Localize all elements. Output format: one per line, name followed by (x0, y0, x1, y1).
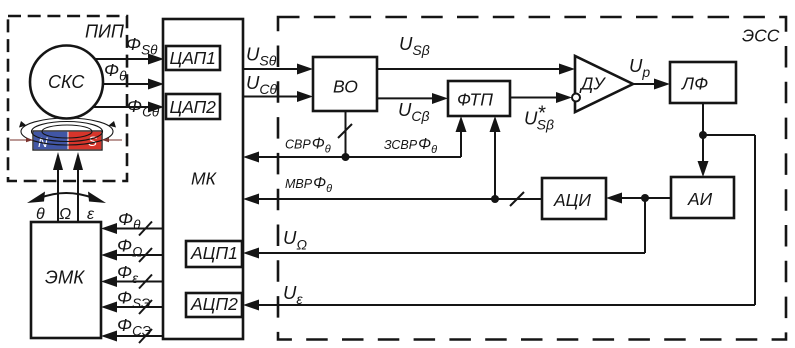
svg-text:ЭСС: ЭСС (742, 26, 780, 46)
block ЛФ (670, 62, 736, 103)
wire ЭМК to magnet (two up arrows) (53, 152, 83, 222)
rotation double arrow (27, 192, 106, 204)
svg-text:Ω: Ω (59, 206, 71, 223)
wire Φ_Ω (МК to ЭМК) (101, 236, 163, 263)
svg-text:ДУ: ДУ (579, 74, 606, 94)
svg-text:ΦSθ: ΦSθ (126, 34, 158, 58)
svg-text:UСβ: UСβ (398, 99, 429, 124)
comparator ДУ (572, 56, 633, 112)
svg-text:Up: Up (629, 55, 650, 80)
svg-text:USβ: USβ (399, 33, 430, 58)
block АЦП1 (186, 241, 242, 267)
svg-text:UΩ: UΩ (283, 227, 307, 253)
wire Φ_θ (МК to ЭМК) (101, 209, 163, 236)
svg-text:S: S (88, 134, 97, 149)
wire Φ_ε (МК to ЭМК) (101, 262, 163, 289)
wire U_p (ДУ to ЛФ) (629, 55, 670, 90)
svg-text:ЗСВРΦθ: ЗСВРΦθ (384, 136, 437, 156)
svg-text:USθ: USθ (246, 44, 277, 69)
svg-text:Φθ: Φθ (118, 209, 141, 233)
svg-text:Φθ: Φθ (104, 60, 127, 84)
svg-text:СВРΦθ: СВРΦθ (285, 136, 331, 156)
net АИ to АЦИ and U_Ω (243, 193, 671, 259)
sensor СКС (circle) (30, 46, 103, 119)
wire U_Sβ (ВО to ДУ) (376, 33, 575, 75)
svg-text:U*Sβ: U*Sβ (524, 103, 554, 133)
block ЦАП1 (166, 46, 220, 70)
svg-text:ВО: ВО (333, 77, 358, 97)
svg-text:СКС: СКС (48, 72, 85, 92)
svg-text:ЭМК: ЭМК (45, 267, 85, 288)
block ФТП (448, 81, 510, 116)
beta axis arrows (10, 138, 122, 142)
block ЦАП2 (166, 94, 220, 119)
svg-text:ЦАП1: ЦАП1 (170, 48, 216, 68)
svg-text:Uε: Uε (283, 282, 303, 307)
wire Φ_θ (СКС to МК) (102, 60, 164, 90)
node Ω (59, 206, 71, 223)
svg-text:UСθ: UСθ (246, 72, 277, 97)
svg-text:АИ: АИ (687, 189, 713, 209)
block ВО (313, 57, 377, 111)
magnet (rotor, N/S poles) (33, 131, 102, 150)
block ЭМК (31, 222, 101, 338)
node ε (87, 206, 95, 223)
block АЦИ (542, 178, 606, 219)
wire Φ_СЭ (МК to ЭМК) (101, 315, 163, 343)
svg-text:АЦИ: АЦИ (553, 190, 591, 210)
svg-text:ПИП: ПИП (85, 22, 125, 42)
net ЛФ to АИ and U_ε (243, 103, 755, 311)
dashed enclosure ПИП (8, 16, 127, 181)
wire U*_Sβ (ФТП to ДУ) (510, 92, 572, 133)
svg-text:ε: ε (87, 206, 95, 223)
svg-text:θ: θ (36, 206, 45, 223)
field lines (19, 118, 116, 145)
wire Φ_Sθ (СКС to ЦАП1) (95, 34, 164, 65)
svg-text:МВРΦθ: МВРΦθ (285, 175, 332, 195)
block МК (microcontroller) (163, 19, 243, 339)
svg-text:ЦАП2: ЦАП2 (170, 97, 217, 117)
svg-text:АЦП1: АЦП1 (190, 243, 238, 263)
svg-text:ΦСЭ: ΦСЭ (117, 315, 151, 339)
svg-text:АЦП2: АЦП2 (190, 294, 238, 314)
dashed enclosure ЭСС (278, 17, 786, 340)
svg-text:ΦСθ: ΦСθ (127, 96, 160, 120)
block АЦП2 (186, 293, 242, 317)
svg-text:ФТП: ФТП (457, 90, 493, 110)
node θ (36, 206, 45, 223)
wire Φ_SЭ (МК to ЭМК) (101, 288, 163, 315)
svg-text:ΦSЭ: ΦSЭ (117, 288, 150, 312)
svg-text:ЛФ: ЛФ (681, 74, 708, 94)
wire U_Cβ (ВО to ФТП) (376, 93, 448, 124)
wire U_Cθ (МК to ВО) (243, 72, 313, 102)
net МВРΦ_θ (АЦИ to МК and ФТП) (243, 116, 542, 206)
wire U_Sθ (МК to ВО) (243, 44, 313, 75)
wire Φ_Cθ (СКС to ЦАП2) (92, 96, 164, 120)
net СВРΦ_θ / ЗСВРΦ_θ (243, 111, 467, 163)
block АИ (671, 177, 734, 218)
svg-text:МК: МК (191, 169, 218, 189)
